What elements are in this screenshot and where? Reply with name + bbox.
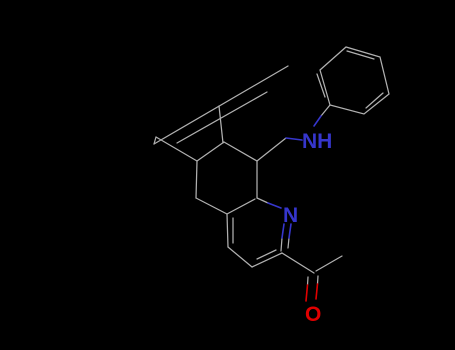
ring A: C2-C3 (227, 199, 255, 214)
bond phenyl-NH (321, 105, 330, 116)
aromatic inner line CD (366, 93, 383, 108)
benzene ring (N-phenyl) (317, 47, 389, 114)
ring A: C5=C6 inner (257, 250, 276, 259)
ring B: Cb1-Cb2 (197, 142, 224, 161)
bond C2-N1 blue part (268, 203, 281, 208)
ring B: V1-C2 vertical (256, 161, 258, 198)
C=O white upper parts (307, 277, 310, 285)
left join (154, 137, 156, 144)
bond NH to V1 (white part) (257, 138, 286, 161)
mega parallel second line (177, 92, 267, 143)
ring B: Cb3-C3 (196, 198, 227, 214)
acetyl: C6-Cc (282, 253, 314, 273)
ring A: C3-C4 (227, 214, 228, 247)
aromatic inner line AB (347, 51, 374, 59)
ring B: Cb2-Cb3 (196, 161, 197, 198)
ring A: C5-C6 (252, 253, 282, 267)
ring A: C3=C4 inner (232, 218, 234, 243)
blue bond parts near N atoms (268, 116, 321, 238)
aromatic inner line EF (317, 74, 325, 97)
T1-Cb1 vertical (219, 106, 223, 143)
left mega diagonal (154, 66, 288, 144)
N1=C6 blue upper parts (282, 224, 284, 238)
acetyl: Cc-CH3 (316, 256, 342, 271)
N1=C6 pair white lower parts (281, 238, 282, 251)
svg-text:O: O (305, 303, 321, 326)
C=O red parts (306, 284, 318, 301)
Cb2 up-left line (156, 137, 197, 161)
svg-text:NH: NH (302, 130, 332, 153)
ring A: C4-C5 (228, 247, 252, 267)
bond NH-phenyl blue part (314, 116, 321, 126)
ring B: V1-Cb1 (224, 142, 257, 161)
ring A: C2-N1 white part (257, 198, 268, 203)
svg-text:N: N (283, 204, 298, 227)
dash left of NH (286, 138, 302, 140)
